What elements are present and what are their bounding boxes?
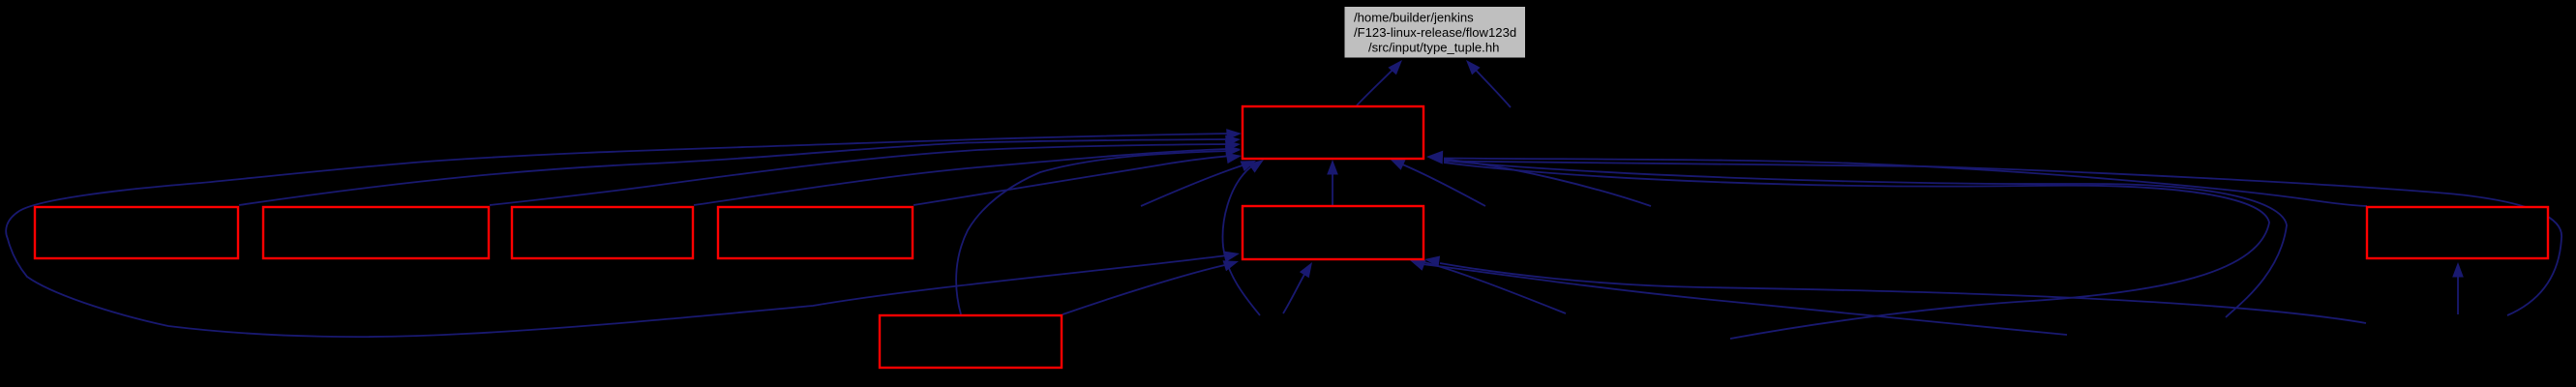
node right box — [2367, 207, 2548, 258]
node A direct includer (red truncated box) — [1243, 106, 1423, 159]
edge box4 to node A — [914, 153, 1242, 205]
edge bottom box to node B — [1063, 260, 1239, 314]
edge box2 to node A — [490, 140, 1241, 205]
node bottom box — [880, 315, 1062, 368]
svg-text:/src/input/type_tuple.hh: /src/input/type_tuple.hh — [1368, 41, 1499, 55]
edge hidden node right to A — [1444, 160, 1651, 207]
edge node B to node A — [1327, 160, 1338, 205]
edge far hidden node to B corner — [1424, 256, 2366, 324]
node box1 left — [35, 207, 238, 258]
edge hidden node to A bottom right — [1390, 159, 1485, 206]
svg-text:/F123-linux-release/flow123d: /F123-linux-release/flow123d — [1354, 25, 1516, 40]
root node /src/input/type_tuple.hh — [1345, 7, 1526, 58]
edge bottom box to node A — [956, 145, 1241, 314]
edge box3 to node A — [694, 145, 1241, 205]
edge hidden node to B bottom — [1283, 262, 1312, 313]
edge outer right curve into A — [1444, 161, 2287, 317]
edge giant right loop into A — [1444, 162, 2561, 316]
svg-text:/home/builder/jenkins: /home/builder/jenkins — [1354, 11, 1474, 25]
edge hidden node to right box — [2452, 262, 2464, 314]
node B second level includer — [1243, 206, 1423, 259]
node box3 left — [512, 207, 693, 258]
edge hidden node to root — [1466, 60, 1511, 107]
edge hidden node to B corner 2 — [1410, 260, 2067, 335]
edge node A to root — [1357, 60, 1402, 105]
node box2 left — [263, 207, 489, 258]
edge far-left loop lower branch into B — [6, 183, 1240, 337]
edge hidden node to A bottom — [1141, 161, 1256, 206]
node box4 left — [718, 207, 913, 258]
edge hidden node around B into A — [1223, 160, 1264, 315]
edge far-left loop upper branch into A — [201, 129, 1242, 183]
edge box1 to node A — [239, 135, 1241, 205]
edge inner right curve into A — [1444, 163, 2269, 339]
edge hidden node to B corner 3 — [1421, 261, 1566, 313]
edge right box to node A — [1444, 159, 2367, 207]
arrowhead into A right edge — [1426, 151, 1443, 164]
